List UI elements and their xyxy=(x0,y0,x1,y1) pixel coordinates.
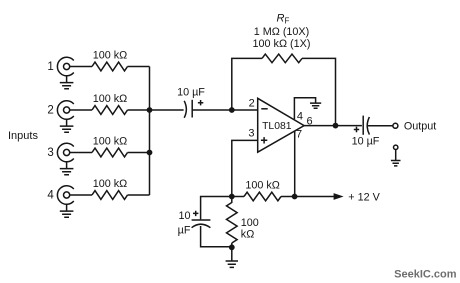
svg-text:100 kΩ (1X): 100 kΩ (1X) xyxy=(253,38,311,50)
ground (input 1) xyxy=(60,76,74,89)
wire C3 bottom to node C xyxy=(201,226,232,247)
wire J2 to R2 xyxy=(70,109,92,111)
node A junction (pin 2 / feedback / C1) xyxy=(229,107,235,113)
op-amp U1 TL081 xyxy=(258,98,304,152)
wire R5 to supply junction xyxy=(281,196,295,198)
resistor RF xyxy=(262,54,302,63)
wire C2 to output terminal xyxy=(368,125,393,127)
svg-text:Inputs: Inputs xyxy=(8,130,38,142)
svg-text:µF: µF xyxy=(178,225,191,237)
svg-text:4: 4 xyxy=(47,189,54,201)
wire output node to C2 xyxy=(336,125,362,127)
svg-text:TL081: TL081 xyxy=(262,121,292,132)
resistor R5 100 kΩ xyxy=(244,192,281,201)
supply arrowhead xyxy=(334,193,344,200)
junction pin7/R5/supply xyxy=(292,194,298,200)
capacitor C3 10 uF xyxy=(192,220,211,228)
output terminal xyxy=(393,123,398,128)
resistor R2 xyxy=(92,106,128,115)
svg-text:1: 1 xyxy=(47,61,53,73)
svg-text:2: 2 xyxy=(249,97,255,109)
wire node B to C3 top xyxy=(201,197,232,220)
svg-text:3: 3 xyxy=(47,147,53,159)
wire R2 to bus xyxy=(128,109,150,111)
svg-text:10 µF: 10 µF xyxy=(177,87,205,99)
wire feedback right vertical to output node xyxy=(302,58,336,125)
svg-text:2: 2 xyxy=(47,104,53,116)
svg-text:SeekIC.com: SeekIC.com xyxy=(394,268,457,280)
wire node A to op-amp pin 2 xyxy=(232,109,258,111)
ground (input 3) xyxy=(60,162,74,175)
wire feedback left vertical xyxy=(232,58,262,110)
wire C1 to node A xyxy=(192,109,232,111)
svg-text:4: 4 xyxy=(297,110,303,122)
op-amp non-inverting input mark + xyxy=(261,137,267,143)
output ground terminal xyxy=(394,145,398,149)
junction bus/input2 xyxy=(147,107,153,113)
node B junction xyxy=(229,194,235,200)
svg-text:100 kΩ: 100 kΩ xyxy=(93,49,127,61)
svg-text:100 kΩ: 100 kΩ xyxy=(93,93,127,105)
label C1 polarity + xyxy=(198,100,203,105)
wire R1 to bus xyxy=(128,66,150,68)
svg-text:+ 12 V: + 12 V xyxy=(348,191,380,203)
resistor R6 100 kΩ xyxy=(227,197,238,248)
label C3 polarity + xyxy=(193,211,198,216)
svg-text:100 kΩ: 100 kΩ xyxy=(93,135,127,147)
resistor R1 xyxy=(92,62,128,71)
wire node B to R5 xyxy=(232,196,244,198)
wire op-amp pin 3 to node B xyxy=(232,140,258,196)
resistor R4 xyxy=(92,191,128,200)
svg-text:10: 10 xyxy=(178,210,190,222)
wire ground terminal stem xyxy=(395,150,397,161)
svg-text:1 MΩ (10X): 1 MΩ (10X) xyxy=(254,26,309,38)
svg-text:10 µF: 10 µF xyxy=(352,135,380,147)
svg-text:3: 3 xyxy=(248,128,254,140)
output node junction xyxy=(333,123,339,129)
wire J4 to R4 xyxy=(70,194,92,196)
ground (pin 4) xyxy=(310,103,321,108)
wire J3 to R3 xyxy=(70,152,92,154)
label C2 polarity + xyxy=(354,127,359,132)
input jack J3 xyxy=(57,143,73,162)
input jack J1 xyxy=(57,57,73,76)
wire supply arrow xyxy=(295,196,335,198)
node C junction xyxy=(229,244,235,250)
ground (input 4) xyxy=(60,204,74,217)
wire op-amp pin 7 down xyxy=(294,131,296,197)
op-amp inverting input mark - xyxy=(261,108,267,110)
wire op-amp output pin 6 xyxy=(304,125,335,127)
input jack J2 xyxy=(57,101,73,120)
ground (input 2) xyxy=(60,119,74,132)
capacitor C2 10 uF xyxy=(363,116,369,135)
svg-text:kΩ: kΩ xyxy=(241,229,254,241)
ground (output) xyxy=(391,161,401,166)
wire op-amp pin 4 to ground xyxy=(294,98,315,120)
resistor R3 xyxy=(92,148,128,157)
wire summing bus xyxy=(149,67,151,196)
wire bus to C1 xyxy=(150,109,184,111)
ground (node C) xyxy=(226,247,238,267)
wire R3 to bus xyxy=(128,152,150,154)
svg-text:7: 7 xyxy=(296,129,302,141)
svg-text:Output: Output xyxy=(404,121,436,133)
wire R4 to bus xyxy=(128,194,150,196)
junction bus/input3 xyxy=(147,150,153,156)
svg-text:100 kΩ: 100 kΩ xyxy=(245,179,279,191)
svg-text:100 kΩ: 100 kΩ xyxy=(93,178,127,190)
svg-text:100: 100 xyxy=(241,217,259,229)
capacitor C1 10 uF xyxy=(184,100,192,118)
input jack J4 xyxy=(57,186,73,205)
wire J1 to R1 xyxy=(70,66,92,68)
